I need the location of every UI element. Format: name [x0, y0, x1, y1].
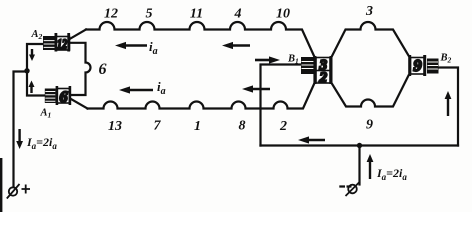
hexagon coil 3 (top): diagonals and bumped top — [332, 22, 409, 57]
svg-text:1: 1 — [194, 119, 201, 134]
wire: bottom bus — [261, 144, 459, 146]
current arrow into B1 (rightward) — [255, 56, 280, 63]
arrow on bottom bus (leftward) — [298, 136, 325, 143]
plus sign — [22, 185, 31, 194]
svg-text:ia: ia — [149, 39, 158, 57]
hexagon coil 9 (bottom): diagonals and bumped bottom — [332, 76, 409, 107]
svg-text:A2: A2 — [31, 29, 43, 41]
wire: lower branch to brush A1 — [27, 72, 45, 96]
svg-text:3: 3 — [365, 4, 373, 19]
svg-text:B1: B1 — [287, 54, 299, 66]
svg-text:5: 5 — [146, 7, 153, 22]
svg-text:9: 9 — [413, 56, 421, 75]
svg-text:6: 6 — [60, 89, 68, 106]
current arrow ia top-left — [115, 42, 147, 49]
commutator bar box 6 — [56, 86, 72, 106]
wire: upper branch to brush A2 — [27, 44, 43, 72]
svg-text:8: 8 — [239, 119, 246, 134]
brush A1 — [45, 89, 56, 104]
current arrow bottom-second — [242, 85, 270, 92]
wire: B2 lead to right vertical — [439, 68, 459, 146]
brush B1 — [301, 57, 314, 74]
svg-text:12: 12 — [57, 36, 67, 51]
terminal - (minus) — [339, 182, 360, 197]
wire: main left vertical to + terminal — [14, 72, 28, 188]
commutator bar box 9 — [408, 55, 426, 76]
arrow Ia down (left lead) — [16, 129, 23, 149]
svg-text:13: 13 — [108, 119, 122, 134]
svg-text:6: 6 — [99, 61, 107, 78]
svg-text:2: 2 — [319, 70, 328, 86]
svg-text:12: 12 — [104, 7, 118, 22]
terminal circle left — [9, 187, 17, 195]
svg-text:Ia=2ia: Ia=2ia — [376, 166, 407, 182]
brush B2 — [427, 59, 439, 74]
arrow Ia up (right lead) — [367, 154, 374, 179]
top row of coils: wire with bumps 12,5,11,4,10 — [86, 22, 315, 57]
svg-text:B2: B2 — [440, 53, 452, 65]
current arrow top-second — [222, 42, 250, 49]
coil loop between A2 and A1 (equalizer) with bump — [70, 43, 91, 95]
svg-text:ia: ia — [157, 79, 166, 97]
svg-text:Ia=2ia: Ia=2ia — [26, 135, 57, 151]
commutator bar boxes 3 / 2 — [313, 56, 332, 86]
svg-text:4: 4 — [234, 7, 242, 22]
current arrow ia bottom-left — [119, 86, 153, 93]
wire: B1 brush lead, down to bottom bus — [261, 65, 302, 146]
svg-text:2: 2 — [279, 119, 287, 134]
wire: diagonal box12 to top row — [70, 30, 86, 39]
terminal circle right — [348, 185, 357, 194]
minus dashes — [339, 185, 351, 187]
svg-text:10: 10 — [276, 7, 290, 22]
bottom row of coils: wire with bumps 13,7,1,8,2 — [88, 83, 315, 109]
scan artifact left edge — [0, 158, 2, 212]
current arrow down (A2 branch) — [29, 49, 35, 61]
terminal + (plus) — [7, 184, 30, 199]
current arrow up (A1 branch) — [29, 81, 35, 94]
node: junction of A1/A2 branches — [24, 68, 29, 73]
wire: diagonal box6 to bottom row — [71, 99, 88, 109]
commutator bar box 12 — [55, 33, 71, 52]
brush A2 — [43, 36, 55, 50]
svg-text:11: 11 — [190, 7, 203, 22]
svg-text:7: 7 — [154, 119, 162, 134]
svg-text:9: 9 — [366, 118, 373, 133]
arrow up beside right vertical — [445, 91, 452, 116]
node: bottom bus junction — [357, 143, 362, 148]
svg-text:A1: A1 — [40, 108, 52, 120]
wire: junction to minus terminal — [358, 146, 360, 185]
